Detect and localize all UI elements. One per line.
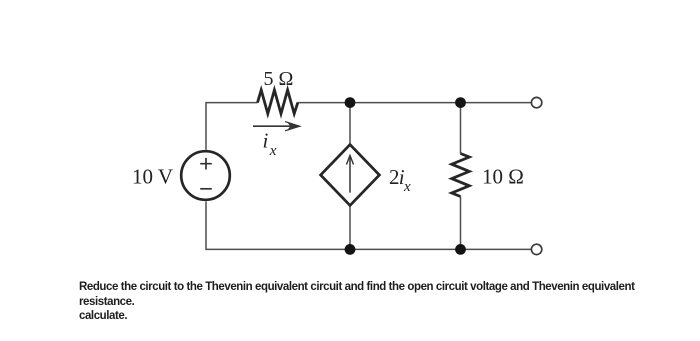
wire bottom rail to right terminal	[350, 248, 531, 250]
node D junction dot bottom right	[455, 244, 466, 255]
dependent source U1 diamond	[321, 145, 380, 206]
current arrow ix	[253, 122, 300, 131]
svg-text:5 Ω: 5 Ω	[264, 68, 294, 90]
svg-text:x: x	[403, 179, 411, 195]
svg-text:10 V: 10 V	[132, 164, 173, 188]
terminal a open circle top right	[531, 97, 541, 107]
plus sign of source	[200, 158, 212, 170]
wire from node B down to 10 ohm resistor	[460, 103, 462, 154]
arrow inside dependent source	[347, 155, 354, 192]
terminal b open circle bottom right	[531, 244, 541, 254]
problem statement caption	[79, 280, 634, 324]
minus sign of source	[200, 188, 212, 190]
voltage source V1 circle	[181, 151, 230, 200]
node B junction dot top right	[455, 97, 466, 108]
wire from node A down to dependent source	[349, 103, 351, 145]
svg-text:x: x	[269, 143, 277, 159]
resistor R2 10 ohm vertical zigzag	[452, 154, 470, 197]
wire from 10 ohm resistor down to bottom rail	[460, 197, 462, 250]
node A junction dot top	[345, 97, 356, 108]
svg-text:10 Ω: 10 Ω	[482, 164, 524, 188]
wire from dependent source down to bottom rail	[349, 205, 351, 249]
wire top from resistor to right terminal	[298, 102, 532, 104]
wire top from source to resistor	[206, 103, 258, 150]
node C junction dot bottom	[345, 244, 356, 255]
wire left bottom from source down to bottom rail	[206, 202, 350, 250]
svg-text:i: i	[263, 129, 269, 153]
resistor R1 5 ohm zigzag	[258, 90, 298, 114]
